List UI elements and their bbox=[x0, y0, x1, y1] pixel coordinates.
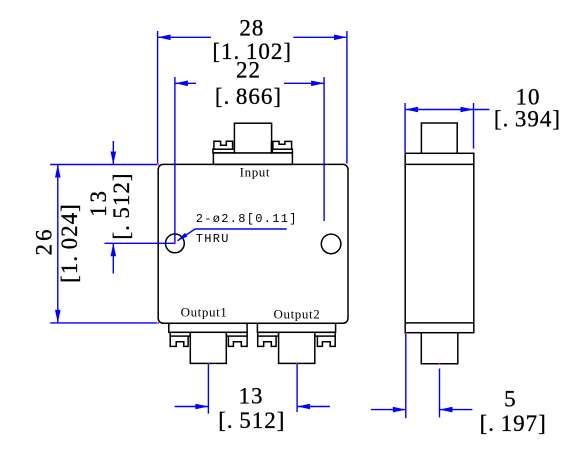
dim 5 line right segment bbox=[440, 409, 473, 411]
dim 26 extension line bottom bbox=[50, 322, 157, 324]
dim 22 arrow left bbox=[175, 81, 188, 87]
dim 26 line bbox=[57, 165, 59, 323]
hole leader line diagonal bbox=[178, 229, 196, 241]
dim 10 extension line left bbox=[404, 103, 406, 153]
output1 connector washer left bbox=[170, 332, 190, 336]
input connector washer left bbox=[213, 149, 235, 153]
side top flange line bbox=[405, 163, 474, 165]
svg-text:THRU: THRU bbox=[196, 232, 230, 246]
output1 connector washer right bbox=[226, 332, 247, 336]
dim 22 extension line right bbox=[323, 77, 325, 221]
output2 connector center pin block bbox=[279, 332, 315, 363]
svg-text:[. 197]: [. 197] bbox=[480, 411, 547, 436]
dim 28 arrow left bbox=[158, 35, 171, 41]
side bottom connector bbox=[421, 333, 458, 364]
dim 26 arrow top bbox=[55, 165, 61, 178]
dim 26 arrow bottom bbox=[55, 310, 61, 323]
dim 13-left line upper bbox=[112, 141, 114, 165]
mounting hole left bbox=[166, 234, 185, 253]
side top connector bbox=[421, 123, 457, 153]
dim 13-bottom arrow right (points left) bbox=[297, 404, 310, 410]
output2 centerline bbox=[296, 363, 298, 412]
svg-text:[. 866]: [. 866] bbox=[215, 84, 282, 109]
dim 13-left arrow top (points down) bbox=[111, 152, 117, 165]
output2 connector nut left bbox=[258, 336, 276, 346]
dim 10 arrow left bbox=[405, 107, 418, 113]
svg-text:22: 22 bbox=[236, 57, 261, 82]
output2 connector nut right bbox=[317, 336, 335, 346]
side bottom flange line bbox=[405, 322, 474, 324]
svg-text:[. 394]: [. 394] bbox=[494, 107, 561, 132]
svg-text:Output1: Output1 bbox=[181, 304, 228, 319]
output2 connector washer right bbox=[315, 332, 335, 336]
dim 28 line left segment bbox=[158, 36, 211, 38]
dim 5 extension line left bbox=[405, 333, 407, 418]
junction dot side connector center bbox=[439, 363, 441, 365]
svg-text:[. 512]: [. 512] bbox=[109, 172, 134, 239]
dim 13-bottom line right segment bbox=[297, 406, 330, 408]
svg-text:2-ø2.8[0.11]: 2-ø2.8[0.11] bbox=[196, 212, 298, 226]
dim 26 extension line top bbox=[50, 164, 157, 166]
dim 5 line left segment bbox=[371, 409, 406, 411]
junction dot side flange corner bbox=[405, 332, 407, 334]
dim 13-left line lower bbox=[112, 243, 114, 273]
dim 28 extension line left bbox=[157, 31, 159, 164]
junction dot body top-left bbox=[158, 164, 160, 166]
output1 connector flange bbox=[169, 323, 247, 332]
input connector center pin block bbox=[234, 123, 271, 153]
dim 5 arrow left (points right) bbox=[393, 407, 406, 413]
dim 10 extension line right bbox=[473, 103, 475, 149]
svg-text:5: 5 bbox=[504, 387, 517, 412]
dim 10 line bbox=[405, 109, 489, 111]
output2 connector flange bbox=[257, 323, 335, 332]
dim 13-left arrow bottom (points up) bbox=[111, 243, 117, 256]
input connector pin block right edge (thick) bbox=[271, 141, 273, 153]
dim 28 extension line right bbox=[346, 31, 348, 164]
dim 13-bottom line left segment bbox=[175, 406, 209, 408]
hole leader arrowhead bbox=[177, 233, 187, 241]
junction dot output1 center bbox=[208, 363, 210, 365]
dim 28 arrow right bbox=[334, 35, 347, 41]
input connector nut right bbox=[273, 141, 292, 149]
hole centerline extension bbox=[105, 242, 175, 244]
input connector nut left bbox=[214, 141, 233, 149]
output1 connector nut left bbox=[170, 336, 188, 346]
svg-text:[. 512]: [. 512] bbox=[218, 408, 285, 433]
input connector flange bbox=[213, 153, 292, 165]
side body outline bbox=[405, 153, 474, 332]
dim 22 line right segment bbox=[284, 82, 324, 84]
dim 10 arrow right bbox=[461, 107, 474, 113]
output2 connector washer left bbox=[258, 332, 279, 336]
junction dot output2 center bbox=[296, 363, 298, 365]
dim 22 arrow right bbox=[311, 81, 324, 87]
svg-text:26: 26 bbox=[31, 227, 56, 256]
svg-text:13: 13 bbox=[239, 384, 264, 409]
hole leader line horizontal bbox=[195, 228, 287, 230]
input connector washer right bbox=[272, 149, 293, 153]
svg-text:Output2: Output2 bbox=[273, 307, 320, 322]
output1 centerline bbox=[207, 363, 209, 413]
junction dot hole center bbox=[174, 243, 176, 245]
svg-text:[1. 024]: [1. 024] bbox=[57, 203, 82, 283]
output1 connector nut right bbox=[228, 336, 247, 346]
dim 28 line right segment bbox=[293, 36, 347, 38]
mounting hole right bbox=[321, 234, 341, 254]
dim 13-bottom arrow left (points right) bbox=[195, 404, 208, 410]
junction dot body bottom-left bbox=[158, 322, 160, 324]
svg-text:28: 28 bbox=[239, 15, 264, 40]
dim 22 extension line left bbox=[174, 77, 176, 243]
svg-text:Input: Input bbox=[240, 164, 270, 179]
dim 22 line left segment bbox=[175, 82, 196, 84]
svg-text:13: 13 bbox=[86, 188, 111, 217]
dim 5 extension line right bbox=[439, 369, 441, 418]
front body outline bbox=[158, 164, 348, 323]
output1 connector center pin block bbox=[190, 332, 226, 363]
dim 5 arrow right (points left) bbox=[440, 407, 453, 413]
